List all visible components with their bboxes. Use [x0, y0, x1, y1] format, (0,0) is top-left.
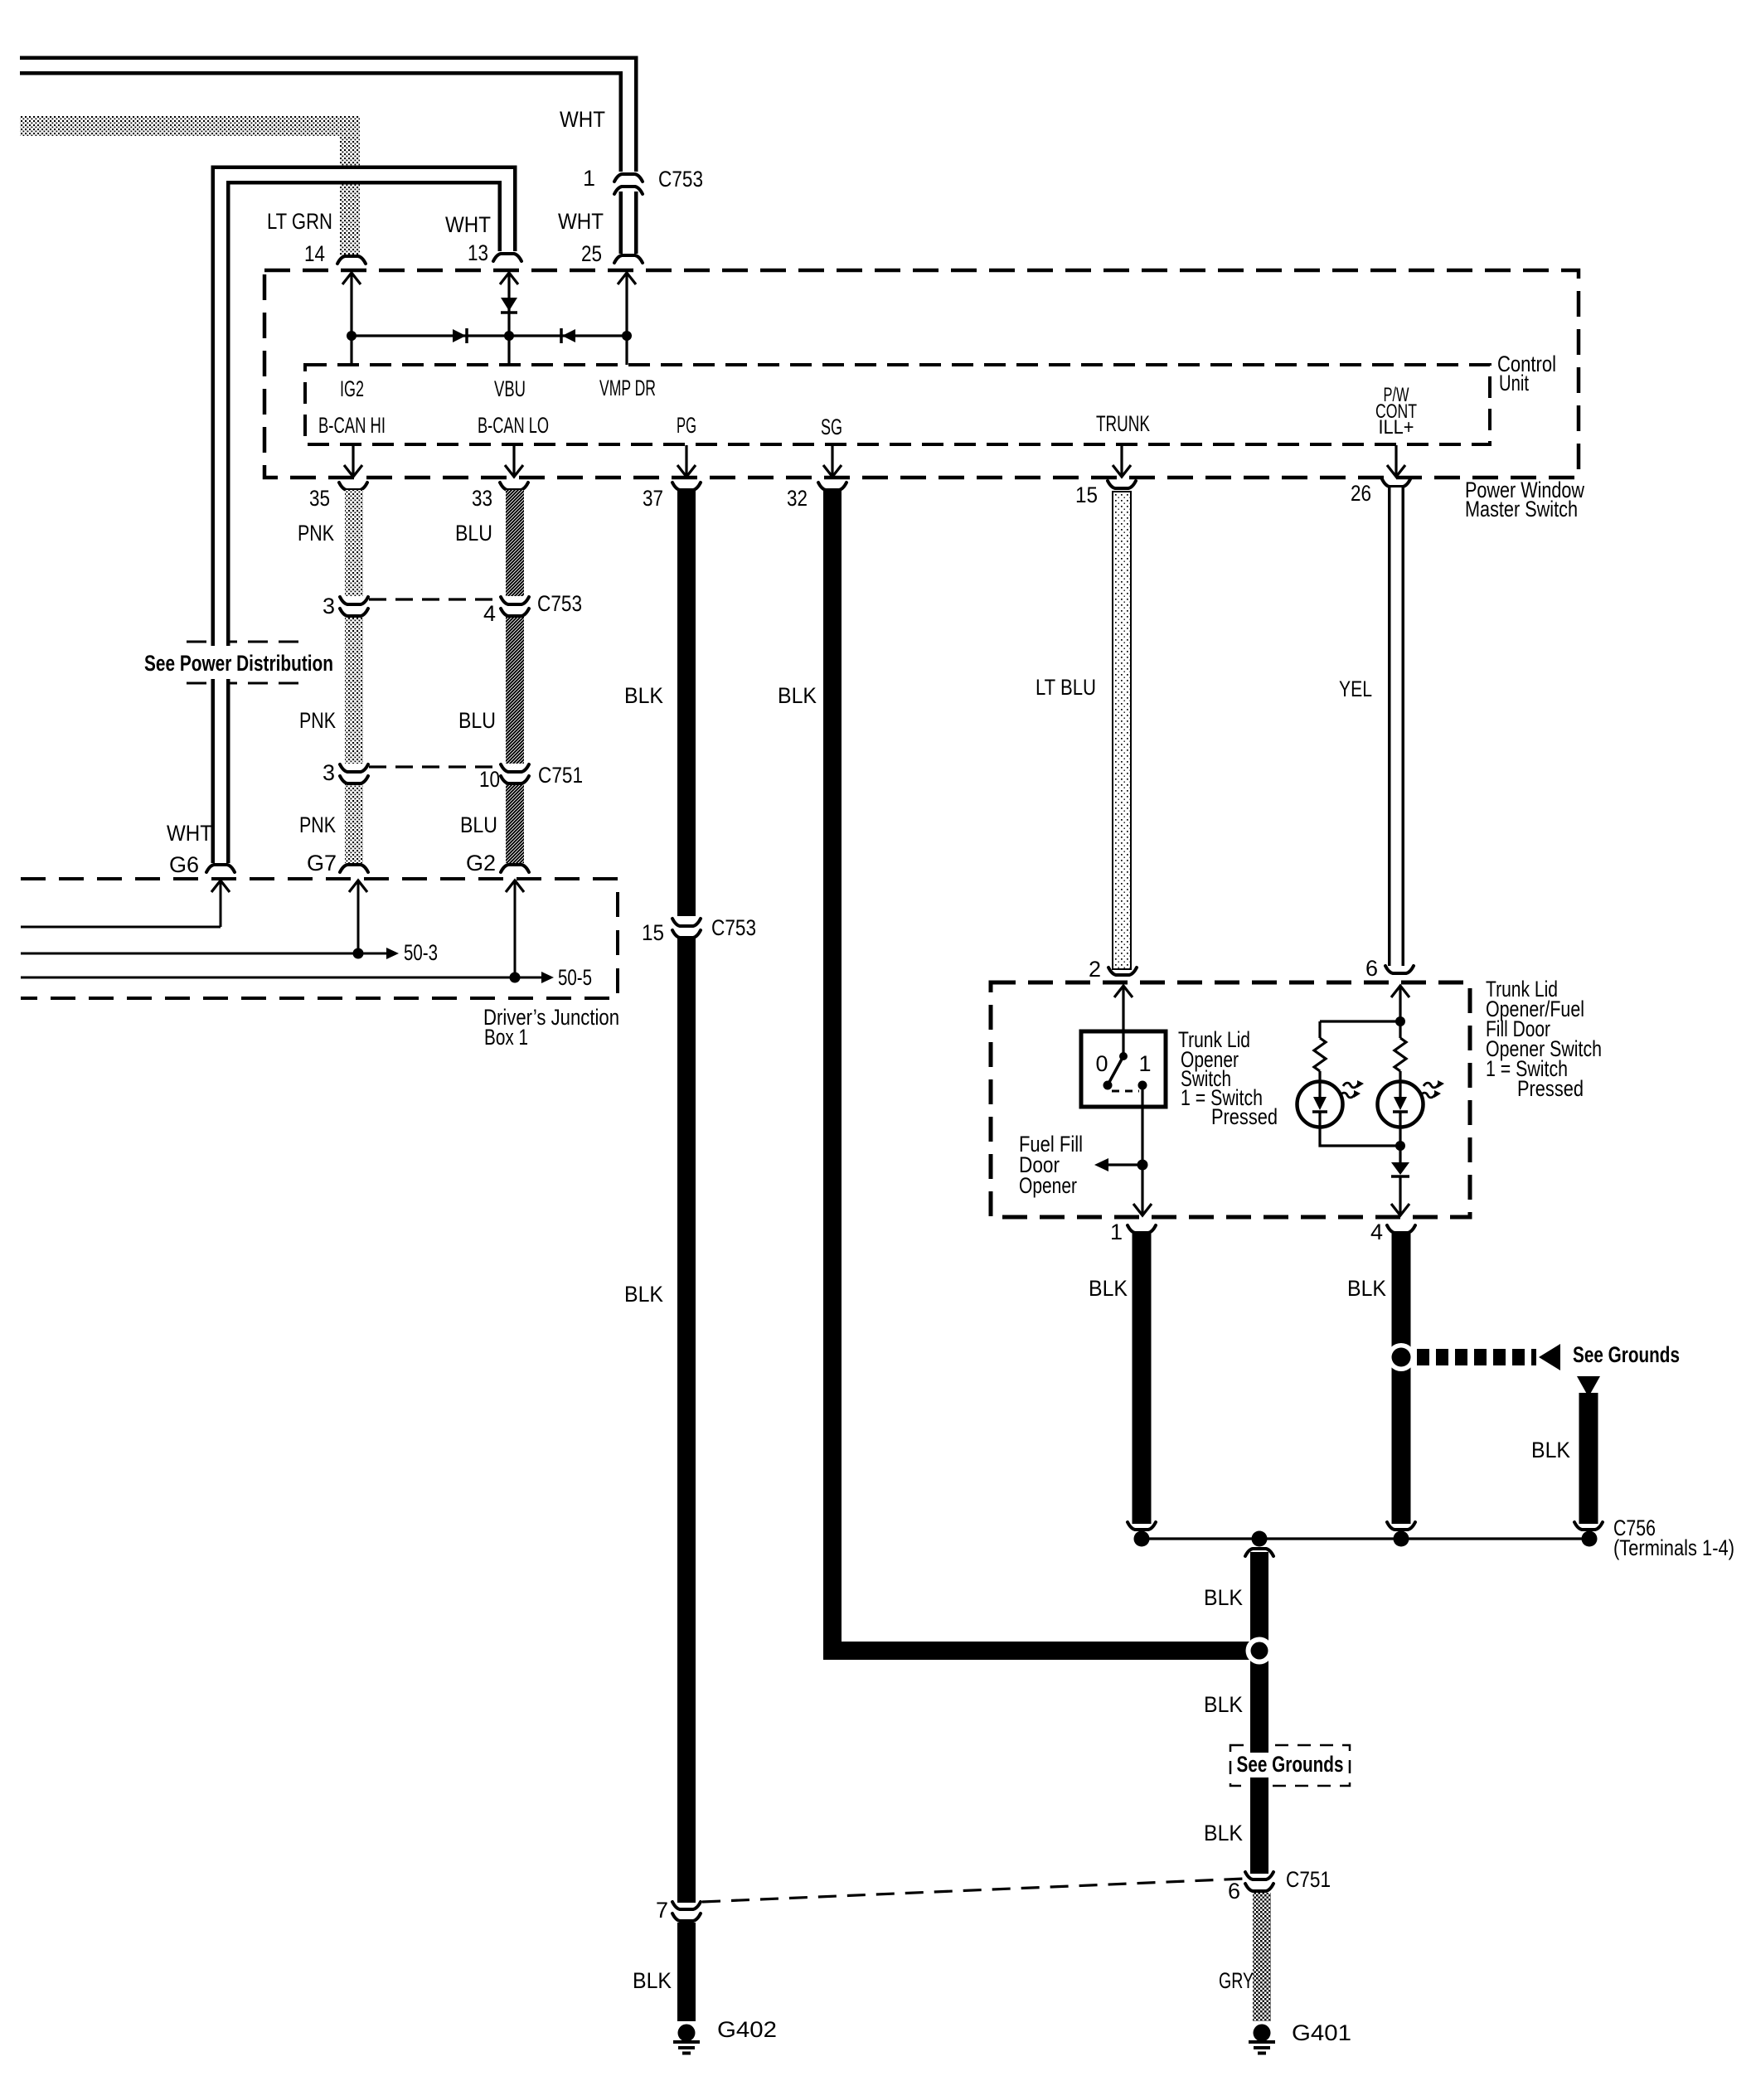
svg-text:VBU: VBU — [494, 376, 526, 401]
bracket C756 pin4 wire — [1387, 1522, 1415, 1530]
junction dot C756 c — [1394, 1531, 1409, 1547]
wire BLK pin 4 down — [1392, 1234, 1411, 1524]
svg-text:BLK: BLK — [1347, 1276, 1386, 1301]
label Trunk Lid Opener/Fuel Fill Door Opener Switch — [1486, 977, 1602, 1101]
resistor left branch wiring — [1314, 1021, 1400, 1081]
junction dot C756 b — [1252, 1531, 1268, 1547]
arrow pin 26 ILL+ — [1387, 445, 1405, 477]
label C756 (Terminals 1-4) — [1613, 1516, 1734, 1560]
bracket C756 drop wire — [1574, 1522, 1603, 1530]
box Trunk Lid Opener/Fuel Fill Door Opener Switch (dashed) — [991, 982, 1470, 1217]
wire WHT C (pin 13 / G6) — [221, 175, 507, 863]
bracket G7 — [340, 865, 368, 872]
arrow pin 33 B-CAN LO — [505, 445, 523, 477]
svg-text:BLK: BLK — [1089, 1276, 1128, 1301]
wire SG BLK (pin 32 down and right) — [832, 490, 1259, 1651]
wire 50-5 from left — [21, 977, 515, 979]
svg-text:C751: C751 — [538, 763, 583, 788]
svg-text:C753: C753 — [658, 167, 703, 192]
wire GRY band to G401 — [1253, 1893, 1271, 2021]
diode VMP DR to VBU — [561, 328, 575, 343]
svg-text:PNK: PNK — [299, 708, 336, 733]
svg-text:C753: C753 — [537, 591, 582, 616]
arrow to 50-3 — [358, 948, 399, 959]
diode IG2 to VBU — [453, 328, 467, 343]
svg-text:BLK: BLK — [633, 1968, 672, 1993]
svg-text:13: 13 — [468, 240, 488, 265]
junction dot VBU bus — [504, 331, 514, 341]
junction dot pin6 branch — [1395, 1016, 1405, 1026]
bracket pin 37 — [672, 483, 701, 490]
LED left illumination — [1297, 1080, 1365, 1128]
bracket G6 — [206, 865, 235, 872]
svg-text:14: 14 — [304, 241, 325, 266]
bracket pin 25 — [614, 255, 643, 263]
wire BLK pin 1 down — [1133, 1234, 1152, 1524]
svg-text:PNK: PNK — [298, 521, 334, 546]
svg-text:0: 0 — [1095, 1051, 1108, 1076]
arrow pin 35 B-CAN HI — [344, 445, 362, 477]
wire to G6 from left — [21, 926, 221, 929]
svg-text:WHT: WHT — [560, 107, 605, 132]
connector 4/C753 on BLU — [501, 597, 529, 616]
svg-text:IG2: IG2 — [340, 376, 364, 401]
wire BLK C756 to ground branch — [1250, 1552, 1268, 1874]
resistor right branch — [1394, 1021, 1406, 1081]
arrow G7 inside junction box — [349, 880, 367, 953]
ground G402 — [673, 2025, 700, 2054]
svg-text:Master Switch: Master Switch — [1465, 497, 1578, 521]
connector 3/C751 on PNK — [340, 764, 368, 783]
svg-text:G401: G401 — [1292, 2020, 1351, 2045]
svg-text:3: 3 — [323, 594, 335, 618]
pin 13 line with diode to VBU — [500, 273, 518, 365]
svg-text:BLK: BLK — [1204, 1692, 1243, 1717]
arrow pin 15 TRUNK — [1113, 445, 1131, 477]
svg-text:PNK: PNK — [299, 812, 336, 837]
wire from contact 1 down — [1141, 1085, 1143, 1165]
wire BLK see grounds drop — [1579, 1393, 1598, 1524]
svg-text:LT GRN: LT GRN — [267, 209, 332, 234]
svg-text:See Grounds: See Grounds — [1237, 1752, 1344, 1777]
bracket pin 14 — [337, 256, 366, 264]
svg-text:1: 1 — [583, 166, 595, 191]
bracket pin 15 — [1108, 481, 1136, 488]
dashed band to see grounds — [1417, 1349, 1536, 1365]
wire below LED left — [1320, 1128, 1400, 1146]
See Power Distribution dashed box — [141, 642, 337, 683]
wire YEL (pin 26 to pin 6) — [1388, 487, 1404, 966]
svg-text:G7: G7 — [307, 851, 337, 875]
svg-text:37: 37 — [643, 486, 663, 511]
connector C753 pin 1 — [614, 174, 643, 194]
pin 14 arrow and line IG2 — [342, 273, 361, 365]
label Trunk Lid Opener Switch text — [1178, 1027, 1278, 1129]
wire PG BLK (pin 37 to G402) — [677, 490, 696, 2021]
wire BLU band (pin 33 to G2) — [506, 490, 524, 863]
link line C751 bottom row — [702, 1879, 1244, 1902]
svg-text:TRUNK: TRUNK — [1096, 411, 1150, 436]
svg-text:50-3: 50-3 — [404, 940, 438, 965]
arrow pin 2 inside switch box — [1114, 986, 1133, 1056]
svg-text:Pressed: Pressed — [1517, 1076, 1584, 1101]
svg-text:WHT: WHT — [558, 209, 604, 234]
bracket C756 pin1 wire — [1128, 1522, 1156, 1530]
svg-text:PG: PG — [677, 413, 696, 438]
bracket below C756 drop — [1245, 1549, 1273, 1556]
link line C753 row — [369, 598, 500, 600]
arrow to 50-5 — [515, 972, 554, 983]
svg-text:BLK: BLK — [624, 683, 663, 708]
svg-text:6: 6 — [1228, 1879, 1240, 1904]
svg-text:4: 4 — [1370, 1220, 1383, 1244]
svg-text:4: 4 — [483, 601, 496, 626]
bracket pin 1 — [1128, 1225, 1156, 1233]
svg-text:BLK: BLK — [624, 1282, 663, 1307]
wire WHT A top (to C753 pin 1) — [20, 65, 628, 172]
bracket pin 6 — [1385, 966, 1414, 973]
wire C756 junction line — [1137, 1537, 1591, 1540]
svg-text:3: 3 — [323, 760, 335, 785]
svg-text:15: 15 — [642, 920, 664, 945]
svg-text:B-CAN LO: B-CAN LO — [478, 413, 549, 438]
svg-text:G2: G2 — [466, 851, 496, 875]
junction dot 50-3 — [353, 948, 364, 959]
arrow see grounds — [1539, 1344, 1560, 1370]
box Power Window Master Switch (outer dashed) — [264, 270, 1579, 478]
connector 15/C753 on PG — [672, 919, 701, 938]
svg-text:2: 2 — [1089, 957, 1101, 982]
bracket pin 32 — [818, 483, 846, 490]
svg-text:Pressed: Pressed — [1211, 1104, 1278, 1129]
svg-text:1: 1 — [1110, 1220, 1123, 1244]
switch lever — [1108, 1056, 1123, 1084]
junction dot VMP DR bus — [622, 331, 632, 341]
arrow pin 6 inside switch box — [1391, 986, 1409, 1021]
junction dot below LED right — [1395, 1141, 1405, 1151]
fuel fill door opener linkage arrow — [1094, 1158, 1142, 1171]
svg-text:10: 10 — [479, 767, 500, 792]
svg-text:VMP DR: VMP DR — [599, 376, 656, 400]
svg-text:SG: SG — [821, 415, 842, 439]
wire LT GRN band top-left — [20, 126, 350, 256]
label Fuel Fill Door Opener — [1019, 1132, 1083, 1198]
bus line inside control unit — [352, 334, 627, 337]
svg-text:BLU: BLU — [460, 812, 497, 837]
svg-text:G402: G402 — [717, 2017, 777, 2042]
svg-text:See Grounds: See Grounds — [1573, 1342, 1680, 1367]
svg-text:BLK: BLK — [1204, 1821, 1243, 1845]
label P/W CONT ILL+ — [1375, 384, 1417, 439]
diode below LEDs — [1391, 1128, 1409, 1215]
svg-text:BLK: BLK — [778, 683, 817, 708]
LED right illumination — [1378, 1080, 1445, 1128]
svg-text:26: 26 — [1351, 481, 1371, 506]
svg-text:BLK: BLK — [1204, 1585, 1243, 1610]
wire PNK band (pin 35 to G7) — [345, 490, 363, 863]
svg-text:C753: C753 — [711, 915, 756, 940]
svg-text:15: 15 — [1075, 483, 1098, 507]
switch Trunk Lid Opener rectangle — [1081, 1031, 1166, 1107]
junction dot C756 a — [1134, 1531, 1150, 1547]
switch contact 0 dot — [1103, 1081, 1113, 1090]
link line C751 row — [369, 765, 500, 768]
svg-text:50-5: 50-5 — [558, 965, 592, 990]
See Grounds boxed label — [1230, 1745, 1350, 1786]
junction dot fuel fill — [1137, 1160, 1148, 1171]
bracket pin 2 — [1108, 968, 1137, 975]
arrow G2 inside junction box — [506, 880, 524, 977]
switch contact 1 dot — [1138, 1081, 1147, 1090]
bracket pin 4 — [1387, 1225, 1415, 1233]
box Driver's Junction Box 1 (dashed) — [21, 879, 618, 998]
connector 10/C751 on BLU — [501, 764, 529, 783]
wire WHT below C753 to pin 25 — [619, 190, 638, 254]
ground G401 — [1249, 2025, 1275, 2054]
svg-text:BLU: BLU — [455, 521, 492, 546]
svg-text:YEL: YEL — [1339, 677, 1372, 701]
svg-text:BLK: BLK — [1531, 1438, 1570, 1462]
svg-text:See Power Distribution: See Power Distribution — [144, 651, 333, 676]
bracket pin 13 — [493, 254, 521, 261]
junction see grounds splice — [1387, 1343, 1415, 1371]
svg-text:Unit: Unit — [1499, 371, 1529, 395]
svg-text:Opener: Opener — [1019, 1173, 1077, 1198]
pin 25 line VMP DR — [618, 273, 636, 365]
svg-text:BLU: BLU — [458, 708, 496, 733]
svg-text:Box 1: Box 1 — [484, 1025, 528, 1050]
bracket pin 35 — [339, 483, 367, 490]
wire to pin 1 with arrow — [1133, 1165, 1152, 1215]
connector 3/C753 on PNK — [340, 597, 368, 616]
svg-text:C751: C751 — [1286, 1867, 1331, 1892]
box Control Unit (inner dashed) — [305, 365, 1490, 444]
bracket pin 26 — [1382, 479, 1410, 487]
arrow pin 37 PG — [677, 445, 696, 477]
svg-text:GRY: GRY — [1219, 1968, 1254, 1993]
junction dot C756 d — [1582, 1531, 1598, 1547]
svg-text:33: 33 — [472, 486, 492, 511]
connector 6/C751 bottom — [1245, 1872, 1273, 1891]
junction dot IG2 bus — [347, 331, 357, 341]
arrow G6 inside junction box — [211, 880, 230, 927]
wire LT BLU band (pin 15 to pin 2) — [1113, 492, 1131, 969]
arrow pin 32 SG — [823, 445, 842, 477]
svg-text:1: 1 — [1138, 1051, 1151, 1076]
junction dot 50-5 — [510, 972, 521, 983]
svg-text:WHT: WHT — [445, 212, 491, 237]
svg-text:35: 35 — [309, 486, 330, 511]
svg-text:WHT: WHT — [167, 821, 212, 846]
connector 7 on PG wire — [672, 1902, 701, 1921]
svg-text:LT BLU: LT BLU — [1036, 675, 1096, 700]
svg-text:25: 25 — [581, 241, 602, 266]
junction SG splice — [1246, 1637, 1273, 1665]
svg-text:ILL+: ILL+ — [1379, 416, 1414, 439]
svg-text:G6: G6 — [169, 852, 199, 877]
bracket G2 — [501, 865, 529, 872]
wire 50-3 from left — [21, 953, 358, 955]
bracket pin 33 — [500, 483, 528, 490]
svg-text:B-CAN HI: B-CAN HI — [318, 413, 386, 438]
svg-text:32: 32 — [787, 486, 808, 511]
svg-text:6: 6 — [1365, 956, 1378, 981]
switch dashed throw — [1112, 1090, 1139, 1093]
arrow down from see grounds — [1577, 1376, 1600, 1397]
svg-text:(Terminals 1-4): (Terminals 1-4) — [1613, 1535, 1734, 1560]
wire WHT G6 interior over dashes — [215, 633, 226, 693]
switch common pin dot — [1119, 1052, 1128, 1060]
svg-text:7: 7 — [656, 1898, 668, 1923]
